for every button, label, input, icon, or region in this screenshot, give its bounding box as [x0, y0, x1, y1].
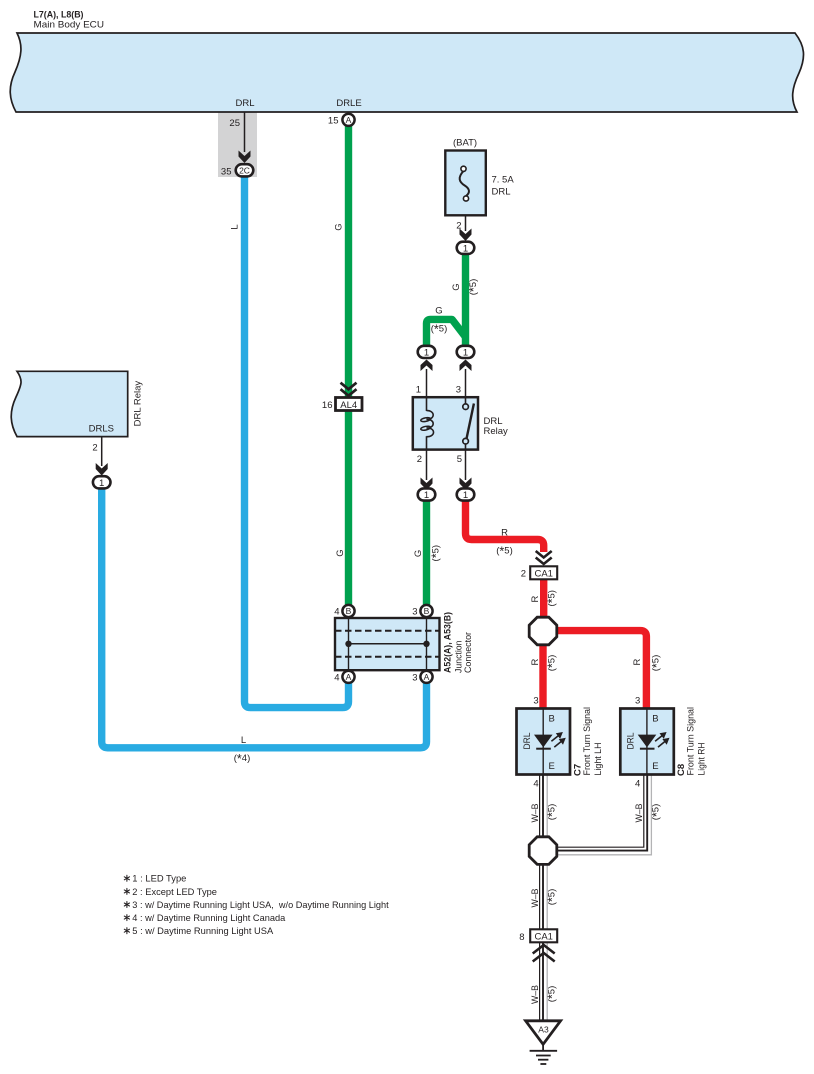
junction pin 3A — [412, 671, 432, 684]
svg-text:7. 5A: 7. 5A — [492, 175, 515, 186]
label G (*5) on fuse wire — [451, 279, 481, 296]
svg-text:R: R — [530, 658, 541, 665]
wire G green DRLE from circle A to junction 4B — [345, 125, 352, 607]
wire W-B from C8 pin4 to octagon2 — [557, 774, 651, 854]
fuse 7.5A DRL — [445, 138, 514, 216]
C7 rotated name — [573, 707, 605, 776]
svg-text:1 : LED Type: 1 : LED Type — [132, 874, 186, 885]
svg-text:L: L — [241, 735, 246, 746]
svg-text:G: G — [435, 306, 442, 317]
connector 2C — [221, 164, 253, 177]
svg-text:CA1: CA1 — [534, 932, 552, 943]
svg-text:35: 35 — [221, 167, 232, 178]
connector 1 pair above relay — [418, 346, 436, 359]
label W-B (*5) above ground — [530, 985, 560, 1004]
svg-text:DRLE: DRLE — [336, 98, 361, 109]
svg-text:A52(A), A53(B): A52(A), A53(B) — [443, 612, 454, 673]
ground triangle A3 — [526, 1021, 561, 1045]
wire R red from CA1 to octagon junction — [540, 579, 547, 619]
relay pin 1 arrow up — [416, 360, 433, 398]
label R (*5) below CA1 — [530, 590, 560, 607]
junction pin 4B — [334, 605, 354, 618]
junction pin 4A — [334, 671, 354, 684]
svg-text:Relay: Relay — [484, 426, 509, 437]
svg-text:1: 1 — [424, 347, 429, 358]
svg-text:B: B — [424, 606, 430, 616]
svg-text:DRL: DRL — [626, 733, 637, 750]
svg-text:Connector: Connector — [463, 632, 474, 673]
junction connector rotated name — [443, 612, 475, 673]
label R (*5) below octagon — [530, 655, 560, 672]
svg-text:Main Body ECU: Main Body ECU — [34, 20, 105, 31]
wire R red from octagon to C8 pin3 — [555, 631, 646, 708]
svg-text:4 : w/ Daytime Running Light C: 4 : w/ Daytime Running Light Canada — [132, 913, 286, 924]
svg-text:B: B — [652, 714, 658, 725]
svg-text:3: 3 — [456, 385, 461, 396]
svg-text:Front Turn Signal: Front Turn Signal — [582, 707, 593, 776]
svg-text:L: L — [230, 224, 241, 229]
relay pin 5 arrow down — [457, 450, 472, 490]
svg-text:Front Turn Signal: Front Turn Signal — [686, 707, 697, 776]
svg-text:1: 1 — [99, 478, 104, 489]
svg-text:(BAT): (BAT) — [453, 138, 477, 149]
chevron out of CA1 pin8 — [533, 945, 555, 962]
fuse pin 2 — [456, 216, 471, 242]
wire W-B from octagon2 to CA1 pin8 — [540, 862, 548, 930]
svg-text:A: A — [346, 115, 352, 125]
connector A (DRLE pin 15) — [328, 114, 355, 127]
connector AL4 — [322, 398, 362, 411]
svg-text:16: 16 — [322, 400, 333, 411]
svg-text:3 : w/ Daytime Running Light U: 3 : w/ Daytime Running Light USA, w/o Da… — [132, 900, 389, 911]
svg-text:B: B — [549, 714, 555, 725]
junction pin 3B — [412, 605, 432, 618]
DRL Relay block (left) — [11, 371, 143, 436]
connector 1 pair below relay — [418, 488, 436, 501]
svg-text:4: 4 — [334, 672, 339, 683]
svg-text:4: 4 — [334, 607, 339, 618]
svg-text:R: R — [530, 595, 541, 602]
svg-text:2 : Except LED Type: 2 : Except LED Type — [132, 887, 217, 898]
svg-text:5 : w/ Daytime Running Light U: 5 : w/ Daytime Running Light USA — [132, 926, 274, 937]
svg-text:3: 3 — [533, 696, 538, 707]
svg-text:1: 1 — [424, 490, 429, 501]
svg-text:W–B: W–B — [530, 804, 541, 823]
svg-text:DRL: DRL — [492, 187, 511, 198]
label L (*4) on long blue wire — [234, 735, 251, 766]
svg-text:1: 1 — [416, 385, 421, 396]
relay pin 2 arrow down — [417, 450, 433, 490]
junction connector A52(A), A53(B) — [335, 618, 440, 670]
svg-text:DRL Relay: DRL Relay — [133, 381, 144, 427]
label L on blue wire — [230, 224, 241, 229]
svg-text:E: E — [652, 761, 658, 772]
relay pin 3 arrow up — [456, 360, 472, 398]
connector 1 below fuse — [457, 242, 475, 255]
svg-text:R: R — [501, 528, 508, 539]
chevron into CA1 pin2 — [536, 551, 552, 564]
C7 front turn signal light LH — [517, 696, 571, 790]
label G (*5) on relay green wire — [413, 545, 444, 562]
svg-text:A: A — [424, 672, 430, 682]
svg-text:2: 2 — [417, 454, 422, 465]
svg-text:E: E — [549, 761, 555, 772]
svg-text:4: 4 — [533, 779, 538, 790]
svg-text:2C: 2C — [239, 166, 250, 176]
wire R red from octagon to C7 pin3 — [539, 643, 546, 708]
svg-text:DRL: DRL — [235, 98, 254, 109]
svg-text:Light LH: Light LH — [593, 742, 604, 775]
label G (*5) at elbow — [431, 306, 448, 337]
connector CA1 pin2 — [521, 566, 557, 579]
connector 1 below DRLS — [93, 476, 111, 489]
svg-text:4: 4 — [635, 779, 640, 790]
wire W-B from C7 pin4 to octagon2 — [540, 774, 548, 839]
svg-text:25: 25 — [229, 118, 240, 129]
wire G green from fuse to relay pins — [427, 253, 466, 347]
svg-text:3: 3 — [412, 672, 417, 683]
label G on DRLE wire (lower) — [335, 549, 346, 556]
label R (*5) on red wire horizontal — [496, 528, 513, 559]
svg-text:G: G — [413, 550, 424, 557]
shield (gray) box at ECU pin 25 — [218, 112, 257, 177]
svg-text:2: 2 — [521, 569, 526, 580]
svg-text:G: G — [451, 283, 462, 290]
label W-B (*5) below octagon2 — [530, 889, 560, 908]
svg-text:G: G — [335, 549, 346, 556]
wire R red from relay pin5 to CA1 — [466, 499, 544, 552]
svg-text:AL4: AL4 — [340, 400, 357, 411]
svg-text:CA1: CA1 — [534, 569, 552, 580]
svg-text:1: 1 — [463, 490, 468, 501]
svg-text:1: 1 — [463, 243, 468, 254]
label W-B (*5) under C7 — [530, 804, 560, 823]
svg-text:DRL: DRL — [522, 733, 533, 750]
notes — [124, 874, 389, 937]
svg-text:3: 3 — [412, 607, 417, 618]
octagon junction 2 (W-B) — [529, 837, 557, 865]
svg-text:G: G — [334, 223, 345, 230]
svg-text:3: 3 — [635, 696, 640, 707]
connector CA1 pin8 — [519, 929, 557, 943]
svg-text:5: 5 — [457, 454, 462, 465]
octagon junction (red) — [529, 617, 557, 645]
svg-text:W–B: W–B — [634, 804, 645, 823]
Main Body ECU block — [10, 10, 803, 113]
label W-B (*5) under C8 — [634, 804, 664, 823]
wire W-B from CA1 pin8 to ground A3 — [540, 942, 548, 1020]
wire L blue from 2C to junction 4A — [245, 175, 349, 708]
svg-text:Light RH: Light RH — [697, 742, 708, 775]
pin 25 line and arrow — [229, 112, 250, 163]
ground symbol — [530, 1044, 558, 1064]
chevron into AL4 — [341, 383, 357, 396]
svg-text:A3: A3 — [538, 1025, 549, 1035]
svg-text:R: R — [632, 658, 643, 665]
svg-text:8: 8 — [519, 932, 524, 943]
label R (*5) on C8 red wire — [632, 655, 664, 672]
C8 rotated name — [676, 707, 708, 776]
svg-text:2: 2 — [92, 443, 97, 454]
svg-text:B: B — [346, 606, 352, 616]
wire G green from relay pin2 to junction 3B — [423, 499, 430, 607]
svg-text:DRLS: DRLS — [89, 423, 114, 434]
wire L blue from DRLS to junction 3A — [102, 487, 427, 748]
C8 front turn signal light RH — [620, 696, 674, 790]
svg-text:A: A — [346, 672, 352, 682]
DRLS pin 2 arrow — [92, 437, 107, 476]
svg-text:15: 15 — [328, 116, 339, 127]
label G on DRLE wire (top) — [334, 223, 345, 230]
svg-text:W–B: W–B — [530, 985, 541, 1004]
DRL relay box — [413, 397, 508, 450]
svg-text:W–B: W–B — [530, 889, 541, 908]
svg-text:1: 1 — [463, 347, 468, 358]
